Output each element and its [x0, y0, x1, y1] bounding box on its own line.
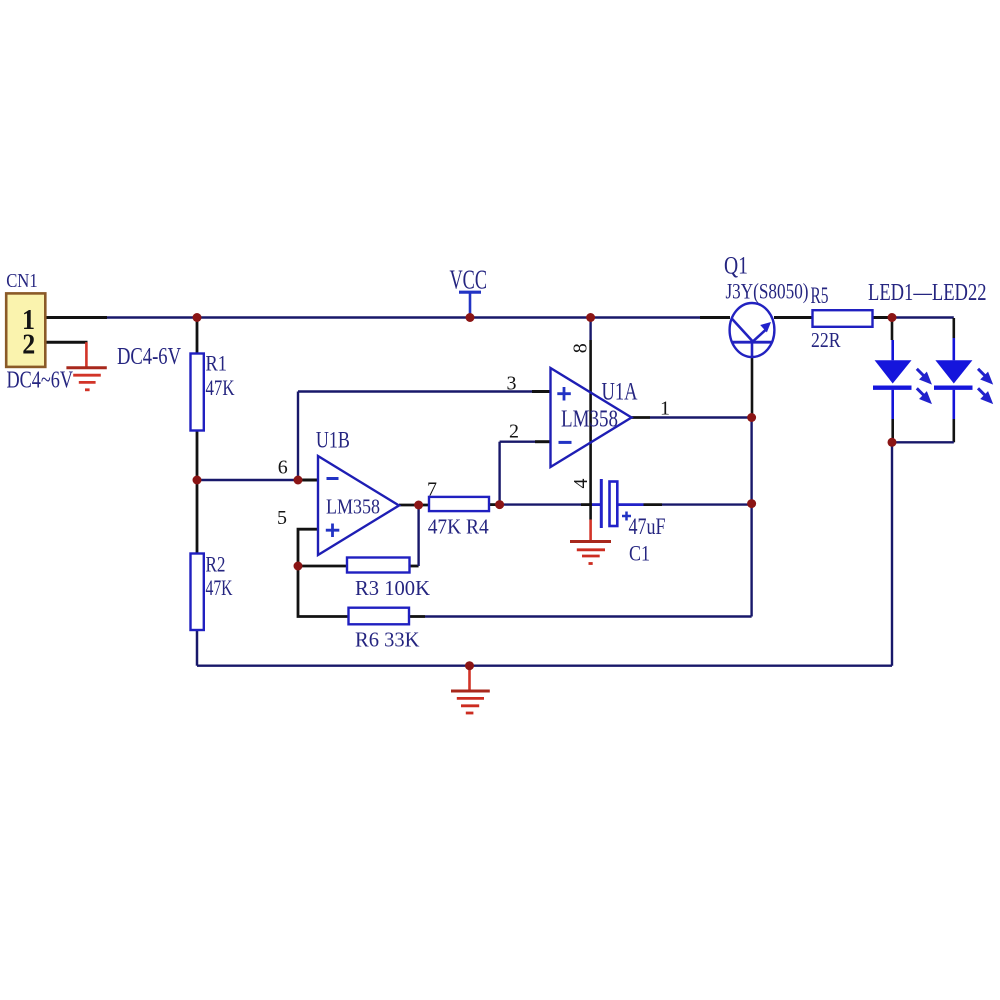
svg-text:R1: R1 [206, 350, 228, 375]
svg-text:LM358: LM358 [561, 407, 618, 433]
svg-text:47uF: 47uF [629, 514, 666, 539]
svg-text:LM358: LM358 [326, 494, 380, 518]
svg-text:7: 7 [427, 478, 437, 500]
svg-text:U1A: U1A [602, 379, 638, 406]
svg-text:U1B: U1B [316, 427, 350, 452]
svg-text:DC4-6V: DC4-6V [117, 344, 182, 370]
svg-text:1: 1 [660, 398, 670, 420]
svg-text:R6 33K: R6 33K [355, 628, 420, 652]
svg-text:5: 5 [277, 507, 287, 529]
svg-text:LED1—LED22: LED1—LED22 [868, 280, 987, 306]
svg-text:Q1: Q1 [724, 253, 748, 280]
svg-text:47K R4: 47K R4 [428, 515, 489, 539]
svg-text:R2: R2 [206, 551, 226, 576]
svg-text:VCC: VCC [450, 265, 488, 295]
svg-text:R3 100K: R3 100K [355, 576, 430, 600]
svg-text:22R: 22R [811, 328, 841, 352]
svg-text:4: 4 [570, 479, 592, 489]
svg-text:47K: 47K [206, 575, 233, 600]
svg-text:8: 8 [570, 343, 592, 353]
svg-text:6: 6 [278, 456, 288, 478]
svg-text:J3Y(S8050): J3Y(S8050) [726, 279, 809, 304]
svg-text:3: 3 [507, 373, 517, 395]
svg-text:47K: 47K [206, 375, 235, 400]
svg-text:CN1: CN1 [6, 270, 38, 292]
svg-text:2: 2 [509, 420, 519, 442]
svg-text:DC4~6V: DC4~6V [7, 368, 74, 394]
svg-text:R5: R5 [811, 283, 829, 308]
svg-text:C1: C1 [629, 540, 650, 565]
svg-text:2: 2 [22, 329, 35, 361]
